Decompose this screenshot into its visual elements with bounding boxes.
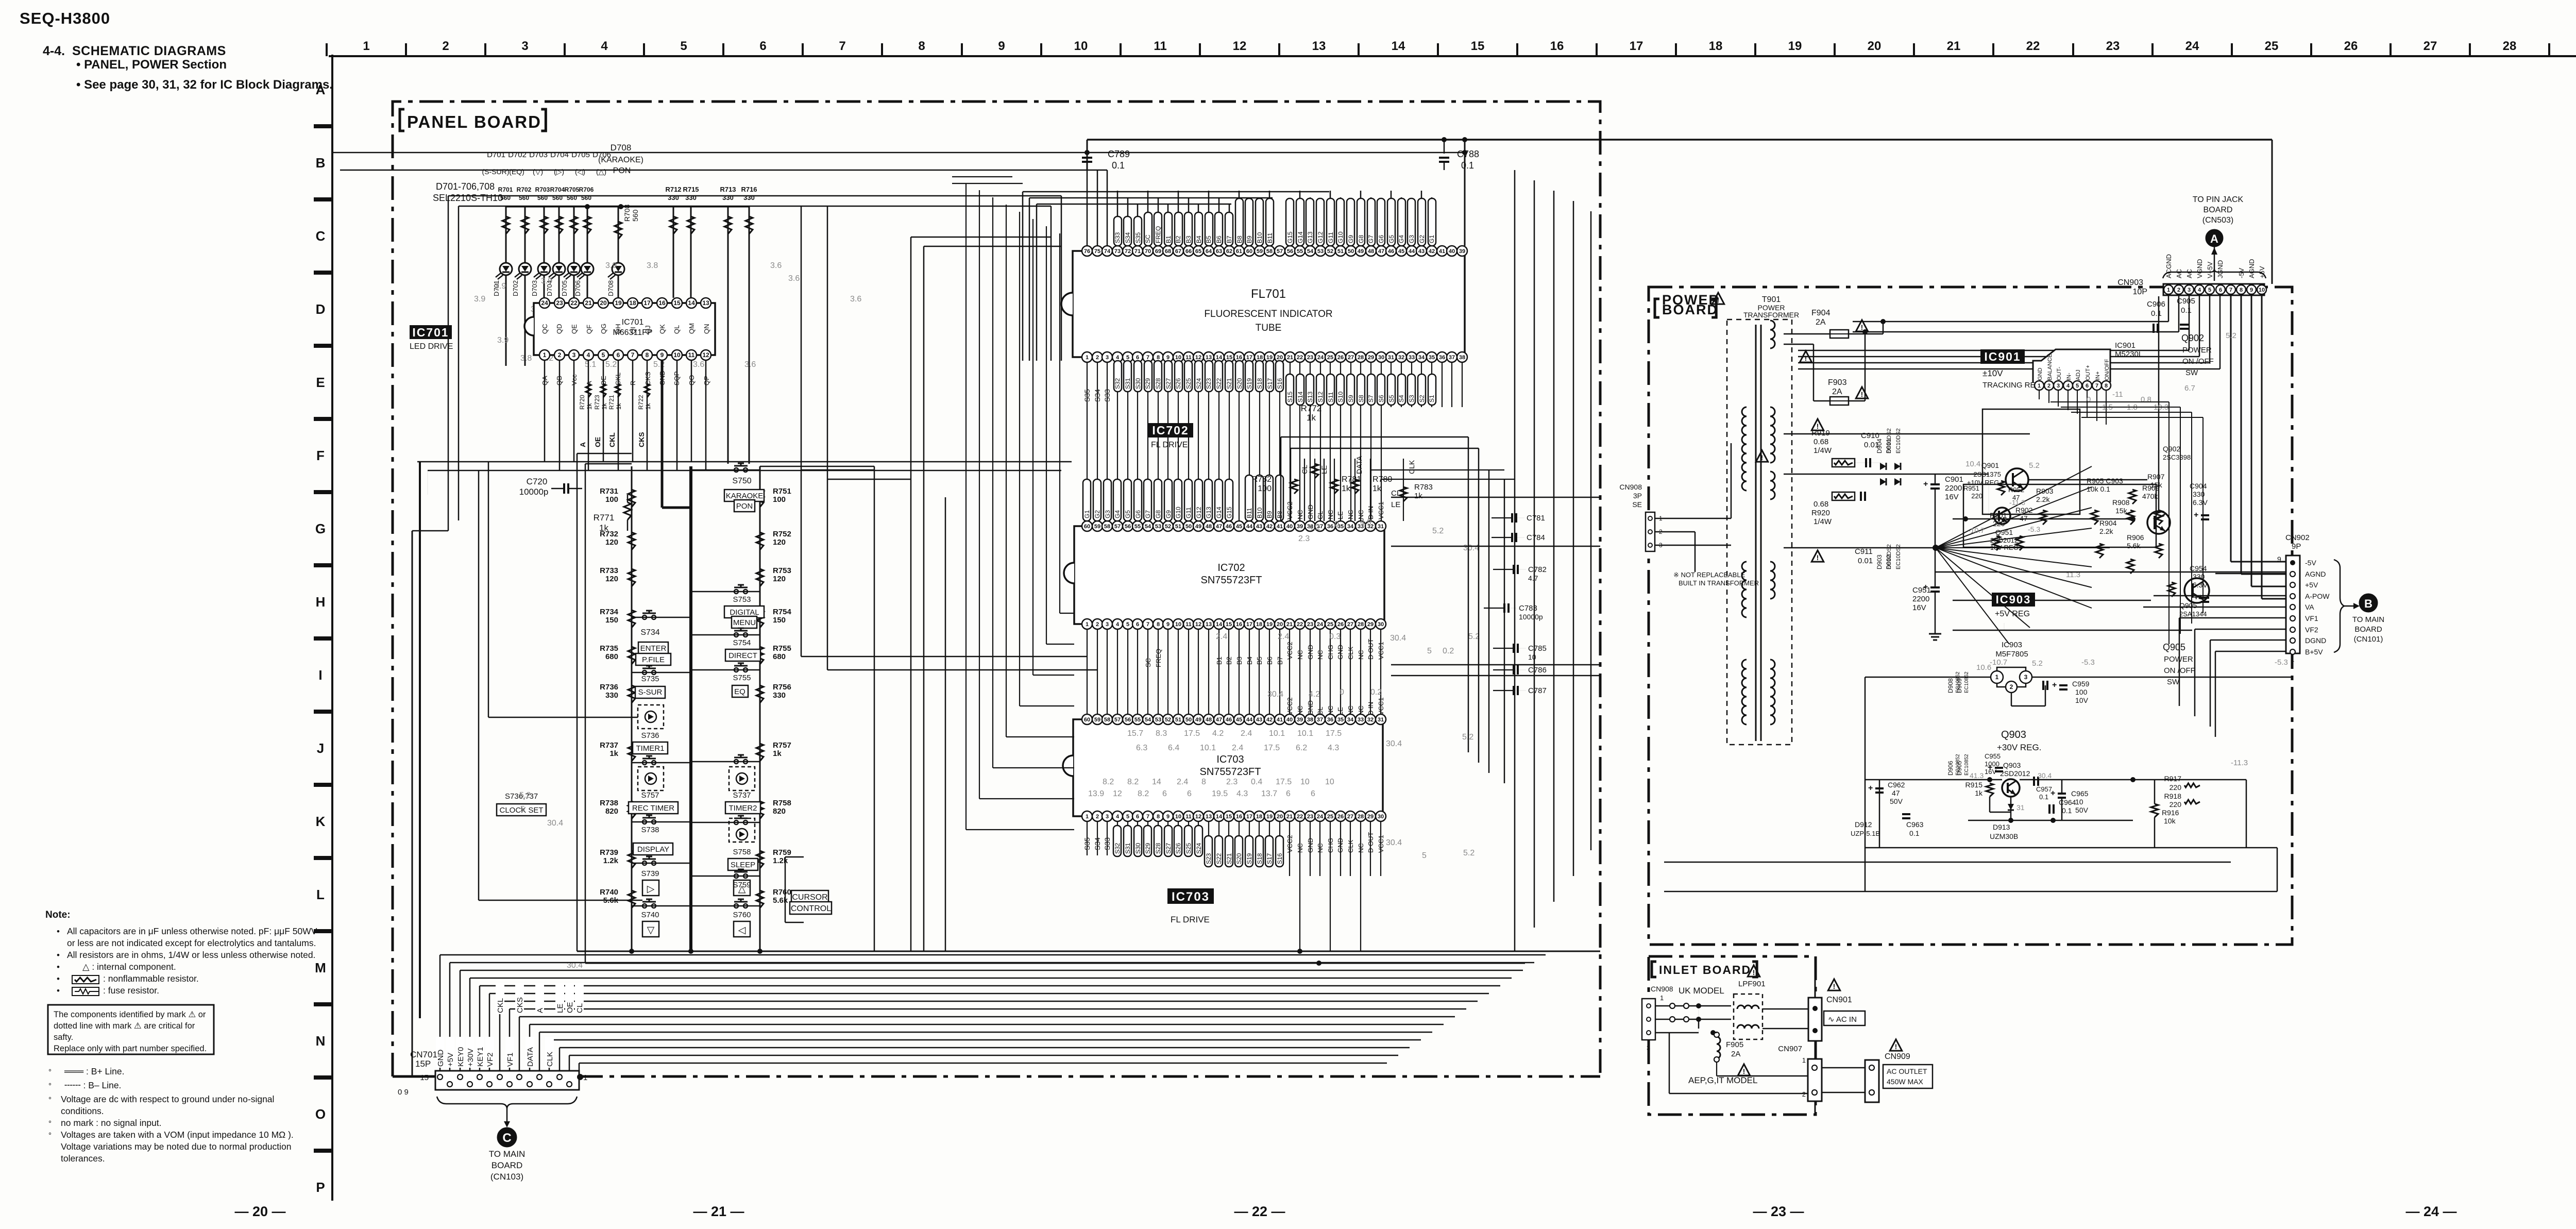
svg-text:76: 76 xyxy=(1084,248,1090,255)
svg-text:57: 57 xyxy=(1277,248,1283,255)
svg-text:3.9: 3.9 xyxy=(605,261,617,270)
svg-text:4: 4 xyxy=(1116,814,1120,820)
svg-text:R759: R759 xyxy=(773,848,791,857)
svg-text:8: 8 xyxy=(918,39,925,53)
svg-text:FL DRIVE: FL DRIVE xyxy=(1171,915,1210,924)
svg-text:S22: S22 xyxy=(1215,853,1223,864)
svg-text:12: 12 xyxy=(1195,355,1201,361)
svg-text:NC: NC xyxy=(1357,705,1365,715)
svg-text:Voltage variations may be: Voltage variations may be noted due to n… xyxy=(61,1141,292,1152)
svg-text:330: 330 xyxy=(773,691,786,700)
svg-text:5.6k: 5.6k xyxy=(2127,542,2141,550)
svg-text:10000p: 10000p xyxy=(519,487,549,497)
svg-text:AGND: AGND xyxy=(2248,259,2256,278)
svg-text:R754: R754 xyxy=(773,608,792,616)
svg-text:3.6: 3.6 xyxy=(788,274,800,283)
svg-text:5.2: 5.2 xyxy=(2226,331,2236,340)
svg-text:AGND: AGND xyxy=(2305,570,2326,578)
svg-text:0.2: 0.2 xyxy=(1443,647,1454,655)
svg-text:S760: S760 xyxy=(733,911,751,919)
svg-text:16V: 16V xyxy=(1912,603,1926,612)
svg-text:68: 68 xyxy=(1165,248,1171,255)
svg-text:+: + xyxy=(2052,681,2057,689)
svg-text:H: H xyxy=(316,594,326,610)
svg-text:C782: C782 xyxy=(1528,565,1547,574)
svg-text:R721: R721 xyxy=(608,395,615,410)
svg-text:G2: G2 xyxy=(1094,510,1101,518)
svg-text:60: 60 xyxy=(1084,717,1090,723)
svg-text:S33: S33 xyxy=(1103,837,1111,850)
svg-text:Q903: Q903 xyxy=(2001,729,2026,740)
svg-text:S31: S31 xyxy=(1124,843,1131,854)
svg-text:SCHEMATIC DIAGRAMS: SCHEMATIC DIAGRAMS xyxy=(72,44,226,58)
svg-text:30: 30 xyxy=(1378,621,1384,628)
svg-text:°: ° xyxy=(48,1096,52,1104)
svg-text:EQ: EQ xyxy=(734,687,745,696)
svg-text:10: 10 xyxy=(673,351,681,359)
svg-text:38: 38 xyxy=(1307,717,1313,723)
svg-text:SW: SW xyxy=(2167,678,2180,686)
svg-text:50V: 50V xyxy=(1890,797,1903,805)
svg-text:13.9: 13.9 xyxy=(1088,789,1104,798)
svg-text:G7: G7 xyxy=(1367,235,1375,243)
svg-text:48: 48 xyxy=(1206,524,1212,530)
svg-text:CN909: CN909 xyxy=(1885,1052,1910,1061)
svg-text:D702: D702 xyxy=(508,150,527,159)
svg-text:43: 43 xyxy=(1256,717,1262,723)
svg-text:220: 220 xyxy=(1993,519,2005,528)
svg-text:•: • xyxy=(57,986,60,996)
svg-text:R903: R903 xyxy=(2036,487,2054,495)
svg-text:21: 21 xyxy=(1286,814,1293,820)
svg-text:45: 45 xyxy=(1236,524,1242,530)
svg-text:100: 100 xyxy=(1258,484,1272,493)
svg-text:+: + xyxy=(1868,784,1873,793)
svg-text:D902: D902 xyxy=(1885,554,1892,569)
svg-text:no mark : no signal input.: no mark : no signal input. xyxy=(61,1118,162,1128)
svg-text:330: 330 xyxy=(685,194,697,201)
svg-text:47: 47 xyxy=(2020,514,2028,523)
svg-text:8: 8 xyxy=(1201,778,1206,786)
svg-text:QF: QF xyxy=(585,325,593,334)
svg-text:2A: 2A xyxy=(1731,1050,1740,1058)
svg-text:S2: S2 xyxy=(1418,395,1426,402)
svg-text:22: 22 xyxy=(1297,814,1303,820)
svg-text:ENTER: ENTER xyxy=(640,644,667,653)
svg-text:330: 330 xyxy=(605,691,618,700)
svg-text:CONTROL: CONTROL xyxy=(791,904,831,913)
svg-text:D701-706,708: D701-706,708 xyxy=(436,181,495,192)
svg-text:0.8: 0.8 xyxy=(2141,395,2151,404)
svg-text:330: 330 xyxy=(668,194,679,201)
svg-text:VCC1: VCC1 xyxy=(1377,501,1385,519)
svg-text:LE: LE xyxy=(556,1004,565,1013)
svg-text:6.7: 6.7 xyxy=(2184,384,2195,393)
svg-text:!: ! xyxy=(1717,296,1720,304)
svg-text:33: 33 xyxy=(1358,717,1364,723)
svg-text:R701: R701 xyxy=(498,186,513,193)
svg-text:═══ : B+ Line.: ═══ : B+ Line. xyxy=(64,1066,124,1076)
svg-text:30: 30 xyxy=(1378,814,1384,820)
svg-text:S23: S23 xyxy=(1205,378,1212,389)
svg-text:1k: 1k xyxy=(609,749,618,758)
svg-text:BOARD: BOARD xyxy=(2354,625,2382,634)
svg-text:S20: S20 xyxy=(1236,378,1243,389)
svg-text:10: 10 xyxy=(1175,814,1181,820)
svg-text:5: 5 xyxy=(1427,647,1432,655)
svg-text:10V: 10V xyxy=(2075,696,2089,704)
svg-text:S27: S27 xyxy=(1165,843,1172,854)
svg-text:G6: G6 xyxy=(1378,235,1385,243)
svg-text:29: 29 xyxy=(1367,814,1374,820)
svg-text:R902: R902 xyxy=(2015,506,2033,514)
svg-text:12: 12 xyxy=(1233,39,1247,53)
svg-text:VA: VA xyxy=(2305,603,2314,611)
svg-text:C785: C785 xyxy=(1528,644,1547,653)
svg-text:GND: GND xyxy=(2037,368,2043,381)
svg-text:10: 10 xyxy=(2075,798,2083,806)
svg-text:A: A xyxy=(316,82,326,97)
svg-text:S14: S14 xyxy=(1297,391,1304,402)
svg-text:G9: G9 xyxy=(1347,235,1354,243)
svg-text:-5V: -5V xyxy=(2238,267,2245,278)
svg-text:5.2: 5.2 xyxy=(605,360,617,369)
svg-text:D906: D906 xyxy=(1947,761,1954,776)
svg-text:ON /OFF: ON /OFF xyxy=(2182,357,2214,366)
svg-text:13: 13 xyxy=(702,299,709,307)
svg-text:23: 23 xyxy=(1307,355,1313,361)
svg-text:0: 0 xyxy=(1340,688,1344,697)
svg-text:18: 18 xyxy=(1256,814,1262,820)
svg-text:DISPLAY: DISPLAY xyxy=(637,845,669,854)
svg-text:21: 21 xyxy=(1287,355,1293,361)
svg-text:P.FILE: P.FILE xyxy=(642,655,665,664)
svg-text:40: 40 xyxy=(1286,717,1293,723)
svg-text:51: 51 xyxy=(1337,248,1344,255)
svg-text:8.2: 8.2 xyxy=(1127,778,1139,786)
svg-text:49: 49 xyxy=(1195,524,1201,530)
svg-text:15P: 15P xyxy=(415,1059,431,1069)
svg-text:47: 47 xyxy=(1216,717,1222,723)
svg-text:S30: S30 xyxy=(1134,378,1142,389)
svg-text:VCC2: VCC2 xyxy=(1286,697,1294,715)
svg-text:47: 47 xyxy=(2012,494,2020,501)
svg-text:8: 8 xyxy=(646,351,649,359)
svg-text:DATA: DATA xyxy=(526,1047,535,1067)
svg-text:23: 23 xyxy=(556,299,563,307)
svg-text:1: 1 xyxy=(543,351,547,359)
svg-text:10k 0.1: 10k 0.1 xyxy=(2087,485,2110,493)
svg-text:51: 51 xyxy=(1175,717,1181,723)
svg-text:13: 13 xyxy=(1206,814,1212,820)
svg-text:°: ° xyxy=(48,1119,52,1128)
svg-text:EC10DS2: EC10DS2 xyxy=(1895,428,1902,453)
svg-text:S10: S10 xyxy=(1337,391,1344,402)
svg-text:40: 40 xyxy=(1286,524,1293,530)
svg-text:30.4: 30.4 xyxy=(1386,838,1402,847)
svg-text:ACGND: ACGND xyxy=(2165,254,2173,278)
svg-text:26: 26 xyxy=(1337,621,1344,628)
svg-text:5: 5 xyxy=(1422,851,1427,860)
svg-text:15: 15 xyxy=(420,1073,429,1082)
svg-text:44: 44 xyxy=(1409,248,1415,255)
svg-text:B9: B9 xyxy=(1266,511,1273,518)
svg-text:+: + xyxy=(1988,763,1992,772)
svg-text:G9: G9 xyxy=(1165,510,1172,518)
svg-text:6: 6 xyxy=(1311,789,1315,798)
svg-text:S32: S32 xyxy=(1114,378,1121,389)
svg-text:1/4W: 1/4W xyxy=(1814,517,1832,526)
svg-text:(EQ): (EQ) xyxy=(509,167,524,176)
svg-text:10.1: 10.1 xyxy=(1200,744,1216,752)
svg-text:VF1: VF1 xyxy=(506,1052,515,1067)
svg-text:IC901: IC901 xyxy=(1984,350,2021,363)
svg-text:VF2: VF2 xyxy=(2305,626,2318,634)
svg-text:1k: 1k xyxy=(586,402,593,410)
svg-text:S28: S28 xyxy=(1155,378,1162,389)
svg-text:(◁): (◁) xyxy=(575,167,585,176)
svg-text:28: 28 xyxy=(1358,814,1364,820)
svg-text:R771: R771 xyxy=(594,513,615,523)
svg-text:10k: 10k xyxy=(2164,817,2176,825)
svg-text:22: 22 xyxy=(1297,355,1303,361)
svg-text:R723: R723 xyxy=(594,395,601,410)
svg-text:46: 46 xyxy=(1226,717,1232,723)
svg-text:S24: S24 xyxy=(1195,378,1202,389)
svg-text:S27: S27 xyxy=(1165,378,1172,389)
svg-text:M5230L: M5230L xyxy=(2115,350,2143,359)
svg-text:820: 820 xyxy=(605,807,618,816)
svg-text:S7: S7 xyxy=(1367,395,1375,402)
svg-text:G3: G3 xyxy=(1104,510,1111,518)
svg-text:S-SUR: S-SUR xyxy=(638,688,663,697)
svg-text:CL: CL xyxy=(1316,706,1324,715)
svg-text:0.1: 0.1 xyxy=(1909,829,1920,837)
svg-text:75: 75 xyxy=(1094,248,1100,255)
svg-text:18: 18 xyxy=(1709,39,1723,53)
svg-text:R952: R952 xyxy=(2008,486,2024,494)
svg-text:M66311FP: M66311FP xyxy=(613,328,652,337)
svg-text:7: 7 xyxy=(631,351,635,359)
svg-text:Q902: Q902 xyxy=(2181,333,2204,343)
svg-text:5: 5 xyxy=(1126,355,1129,361)
svg-text:+: + xyxy=(2050,789,2055,798)
svg-text:S753: S753 xyxy=(733,595,751,604)
svg-text:27: 27 xyxy=(2424,39,2437,53)
svg-text:TRANSFORMER: TRANSFORMER xyxy=(1743,311,1799,319)
svg-text:R732: R732 xyxy=(600,530,618,538)
svg-text:CKS: CKS xyxy=(644,372,652,385)
svg-text:6: 6 xyxy=(1286,789,1291,798)
svg-text:G15: G15 xyxy=(1286,231,1294,243)
svg-text:1k: 1k xyxy=(773,749,782,758)
svg-text:31: 31 xyxy=(1378,524,1384,530)
svg-text:14: 14 xyxy=(1216,814,1223,820)
svg-text:• PANEL, POWER Section: • PANEL, POWER Section xyxy=(76,58,227,72)
svg-text:C781: C781 xyxy=(1527,514,1545,523)
svg-text:41: 41 xyxy=(1439,248,1445,255)
svg-text:19: 19 xyxy=(1266,355,1273,361)
svg-text:(S-SUR): (S-SUR) xyxy=(482,167,510,176)
svg-text:72: 72 xyxy=(1125,248,1131,255)
svg-text:R920: R920 xyxy=(1811,509,1830,517)
svg-text:R733: R733 xyxy=(600,566,618,575)
svg-text:R783: R783 xyxy=(1414,483,1433,492)
svg-text:— 24 —: — 24 — xyxy=(2405,1204,2456,1219)
svg-text:1: 1 xyxy=(1995,674,1999,681)
svg-text:2: 2 xyxy=(1096,621,1099,628)
svg-text:O: O xyxy=(315,1106,326,1122)
svg-text:15: 15 xyxy=(1226,814,1232,820)
svg-text:74: 74 xyxy=(1104,248,1111,255)
svg-text:S737: S737 xyxy=(733,791,751,800)
svg-text:31: 31 xyxy=(1388,355,1394,361)
svg-text:G: G xyxy=(315,521,326,536)
svg-text:0.68: 0.68 xyxy=(1814,500,1828,509)
svg-text:S16: S16 xyxy=(1276,378,1283,389)
svg-text:K: K xyxy=(316,814,326,829)
svg-text:G10: G10 xyxy=(1337,231,1344,243)
svg-text:The components identified by m: The components identified by mark ⚠ or xyxy=(54,1010,206,1019)
svg-text:CN908: CN908 xyxy=(1651,985,1673,993)
svg-text:R951: R951 xyxy=(1963,484,1979,492)
svg-text:SN755723FT: SN755723FT xyxy=(1201,575,1262,586)
svg-text:S3: S3 xyxy=(1408,395,1415,402)
svg-text:9: 9 xyxy=(2277,555,2281,563)
svg-text:dotted line with mark ⚠ are cr: dotted line with mark ⚠ are critical for xyxy=(54,1021,195,1031)
svg-text:47: 47 xyxy=(1892,789,1900,797)
svg-text:R751: R751 xyxy=(773,487,791,496)
svg-text:70: 70 xyxy=(1145,248,1151,255)
svg-text:+30V: +30V xyxy=(466,1049,475,1067)
svg-text:35: 35 xyxy=(1429,355,1435,361)
svg-text:1k: 1k xyxy=(1372,484,1382,493)
svg-text:17: 17 xyxy=(1246,355,1252,361)
svg-text:42: 42 xyxy=(1266,524,1273,530)
svg-text:1/4W: 1/4W xyxy=(1814,446,1832,455)
svg-text:KARAOKE: KARAOKE xyxy=(726,492,764,500)
svg-text:5.2: 5.2 xyxy=(2029,461,2040,470)
svg-text:18: 18 xyxy=(629,299,636,307)
svg-text:1: 1 xyxy=(1086,621,1089,628)
svg-text:CURSOR: CURSOR xyxy=(792,893,827,902)
svg-text:A: A xyxy=(536,1008,545,1013)
svg-text:17: 17 xyxy=(1630,39,1643,53)
svg-text:25: 25 xyxy=(1327,814,1333,820)
svg-text:BALANCE: BALANCE xyxy=(2047,354,2053,380)
svg-text:R735: R735 xyxy=(600,644,618,653)
svg-text:57: 57 xyxy=(1114,524,1121,530)
svg-text:25: 25 xyxy=(2265,39,2279,53)
svg-text:3: 3 xyxy=(2057,383,2060,389)
svg-text:56: 56 xyxy=(1125,717,1131,723)
svg-text:8: 8 xyxy=(1157,621,1160,628)
svg-text:Q951: Q951 xyxy=(1995,528,2013,536)
svg-text:B6: B6 xyxy=(1215,235,1223,243)
svg-text:0.4: 0.4 xyxy=(1251,778,1262,786)
svg-text:VF1: VF1 xyxy=(2305,614,2318,622)
svg-text:C955: C955 xyxy=(1985,752,2001,760)
svg-text:S21: S21 xyxy=(1226,378,1233,389)
svg-text:5: 5 xyxy=(520,805,525,814)
svg-text:DIGITAL: DIGITAL xyxy=(730,608,759,617)
svg-text:S32: S32 xyxy=(1114,843,1121,854)
svg-text:22: 22 xyxy=(1297,621,1303,628)
svg-text:16: 16 xyxy=(658,299,666,307)
svg-text:8: 8 xyxy=(2105,383,2108,389)
svg-text:S12: S12 xyxy=(1317,391,1324,402)
svg-text:2A: 2A xyxy=(1816,318,1826,327)
svg-text:!: ! xyxy=(1753,968,1755,977)
svg-text:17.5: 17.5 xyxy=(1276,778,1292,786)
svg-text:2: 2 xyxy=(2047,383,2050,389)
svg-text:R703: R703 xyxy=(535,186,550,193)
svg-text:16: 16 xyxy=(1236,355,1242,361)
svg-text:S757: S757 xyxy=(641,791,659,800)
svg-text:41.3: 41.3 xyxy=(1970,771,1984,780)
svg-text:30.4: 30.4 xyxy=(1463,544,1479,552)
svg-text:A: A xyxy=(2210,232,2218,245)
svg-text:10: 10 xyxy=(1074,39,1088,53)
svg-text:3.8: 3.8 xyxy=(647,261,658,270)
svg-text:24: 24 xyxy=(1317,814,1324,820)
svg-text:56: 56 xyxy=(1287,248,1293,255)
svg-text:680: 680 xyxy=(773,652,786,661)
svg-text:6: 6 xyxy=(1162,789,1167,798)
svg-text:20: 20 xyxy=(1277,355,1283,361)
svg-text:60: 60 xyxy=(1084,524,1090,530)
svg-text:R916: R916 xyxy=(2162,809,2179,817)
svg-text:S34: S34 xyxy=(1093,837,1101,850)
svg-text:S26: S26 xyxy=(1175,378,1182,389)
svg-text:C786: C786 xyxy=(1528,666,1547,675)
svg-text:30: 30 xyxy=(1378,355,1384,361)
svg-text:42: 42 xyxy=(1429,248,1435,255)
svg-text:150: 150 xyxy=(773,616,786,625)
svg-text:LED DRIVE: LED DRIVE xyxy=(410,342,453,351)
svg-text:QP: QP xyxy=(703,376,710,385)
svg-text:B+5V: B+5V xyxy=(2305,648,2323,656)
svg-text:B9: B9 xyxy=(1246,235,1253,243)
svg-text:G10: G10 xyxy=(1175,507,1182,518)
svg-text:S23: S23 xyxy=(1205,853,1212,864)
svg-text:KEY1: KEY1 xyxy=(476,1047,485,1067)
svg-text:15: 15 xyxy=(1226,621,1232,628)
svg-text:C788: C788 xyxy=(1457,149,1479,159)
svg-text:56: 56 xyxy=(1125,524,1131,530)
svg-text:15k: 15k xyxy=(2150,481,2163,489)
svg-text:3: 3 xyxy=(2024,674,2028,681)
svg-text:IC903: IC903 xyxy=(2002,641,2022,649)
svg-text:7: 7 xyxy=(2095,383,2098,389)
svg-text:14: 14 xyxy=(1392,39,1405,53)
svg-text:R705: R705 xyxy=(565,186,580,193)
svg-text:23: 23 xyxy=(1307,621,1313,628)
svg-text:C906: C906 xyxy=(2147,300,2165,309)
svg-text:100: 100 xyxy=(2075,688,2088,696)
svg-text:C905: C905 xyxy=(2177,297,2195,306)
svg-text:S35: S35 xyxy=(1083,389,1091,402)
svg-text:S35: S35 xyxy=(1134,232,1142,243)
svg-text:(CN503): (CN503) xyxy=(2202,216,2233,225)
svg-text:OE: OE xyxy=(566,1002,574,1013)
svg-text:B3: B3 xyxy=(1185,235,1192,243)
svg-text:39: 39 xyxy=(1459,248,1465,255)
svg-text:QN: QN xyxy=(703,324,710,334)
svg-text:OE: OE xyxy=(594,437,602,447)
svg-text:45: 45 xyxy=(1236,717,1242,723)
svg-text:PON: PON xyxy=(736,502,753,511)
